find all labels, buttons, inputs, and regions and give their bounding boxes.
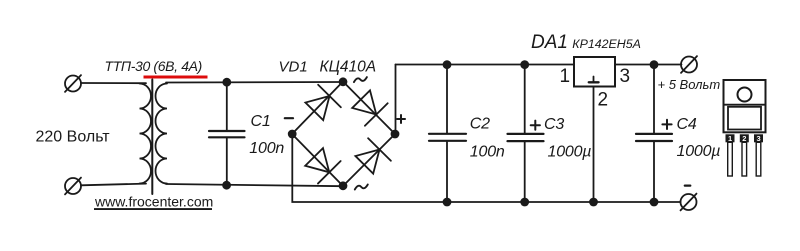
svg-text:1000µ: 1000µ <box>548 144 592 161</box>
output terminal plus <box>681 56 697 73</box>
svg-text:1000µ: 1000µ <box>677 143 721 160</box>
diode VD1.1 top-left <box>303 85 341 123</box>
junction C4 top <box>650 60 659 69</box>
ground symbol inside DA1 <box>589 77 599 83</box>
AC tilde top <box>354 77 367 82</box>
TO-220 leg 3 <box>756 142 761 176</box>
diode VD1.2 top-right <box>350 88 388 126</box>
TO-220 label area <box>728 107 761 130</box>
svg-text:ТТП-30 (6В, 4А): ТТП-30 (6В, 4А) <box>105 58 202 74</box>
diode VD1.3 bottom-left <box>303 146 341 184</box>
junction C3 top <box>520 60 529 69</box>
svg-text:C4: C4 <box>677 116 697 133</box>
TO-220 leg 2 <box>742 142 747 176</box>
output terminal minus <box>681 194 697 211</box>
minus label above output terminal <box>685 185 691 187</box>
wire positive riser from bridge right vertex <box>395 65 397 135</box>
junction C3 bottom <box>520 198 529 207</box>
TO-220 leg 1 <box>728 142 733 176</box>
svg-text:3: 3 <box>620 66 631 87</box>
svg-text:C3: C3 <box>544 116 564 133</box>
wire primary top <box>81 82 146 84</box>
TO-220 mounting hole <box>738 88 752 102</box>
plus sign at bridge right vertex <box>397 115 405 123</box>
junction C4 bottom <box>650 198 659 207</box>
junction DA1 pin2 bottom <box>589 198 598 207</box>
red underline <box>144 76 208 79</box>
TO-220 pin pad 2 <box>740 134 749 142</box>
wire negative rail <box>292 134 680 202</box>
junction C2 bottom <box>443 198 452 207</box>
TO-220 pin pad 1 <box>726 134 735 142</box>
input terminal X1 top <box>65 75 81 92</box>
wire DA1 pin2 down <box>593 87 595 203</box>
capacitor C4 <box>636 65 672 202</box>
svg-text:DA1: DA1 <box>531 32 568 53</box>
capacitor C2 <box>429 65 466 202</box>
plus sign of C3 <box>531 121 540 130</box>
TO-220 separator line <box>724 104 766 106</box>
TO-220 pin pad 3 <box>754 134 763 142</box>
junction C1 bottom <box>222 181 231 190</box>
wire DA1 pin3 to output <box>615 64 682 66</box>
junction bridge bottom vertex <box>339 181 348 190</box>
bridge VD1 diamond edges <box>292 82 395 187</box>
underline of www.frocenter.com <box>94 208 212 210</box>
wire secondary bottom <box>166 184 343 186</box>
svg-text:www.frocenter.com: www.frocenter.com <box>94 193 213 209</box>
svg-text:КЦ410А: КЦ410А <box>320 58 377 75</box>
wire primary bottom <box>81 184 146 186</box>
capacitor C1 <box>209 82 245 185</box>
transformer T1 primary winding <box>140 84 152 184</box>
junction bridge top vertex <box>339 77 348 86</box>
svg-text:1: 1 <box>560 66 571 87</box>
TO-220 package outline <box>724 80 766 132</box>
svg-text:C2: C2 <box>470 115 490 132</box>
junction bridge right vertex <box>391 130 400 139</box>
minus sign at bridge left vertex <box>285 117 293 119</box>
transformer T1 secondary winding <box>156 84 168 184</box>
svg-text:C1: C1 <box>251 113 271 130</box>
junction bridge left vertex <box>288 130 297 139</box>
wire top rail to DA1 pin1 <box>396 64 575 66</box>
plus sign of C4 <box>662 120 671 129</box>
AC tilde bottom <box>355 185 368 190</box>
diode VD1.4 bottom-right <box>353 138 391 176</box>
wire secondary top <box>166 81 343 84</box>
svg-text:220 Вольт: 220 Вольт <box>36 129 111 146</box>
svg-text:VD1: VD1 <box>279 58 308 75</box>
svg-text:+ 5 Вольт: + 5 Вольт <box>658 77 721 92</box>
svg-text:КР142ЕН5А: КР142ЕН5А <box>572 37 641 51</box>
svg-text:2: 2 <box>598 89 609 110</box>
transformer core <box>151 80 153 195</box>
junction C2 top <box>443 60 452 69</box>
regulator DA1 box <box>574 57 615 87</box>
capacitor C3 <box>508 65 544 202</box>
svg-text:100n: 100n <box>249 140 284 157</box>
svg-text:100n: 100n <box>470 144 505 161</box>
input terminal X2 bottom <box>65 178 81 195</box>
junction C1 top <box>222 78 231 87</box>
